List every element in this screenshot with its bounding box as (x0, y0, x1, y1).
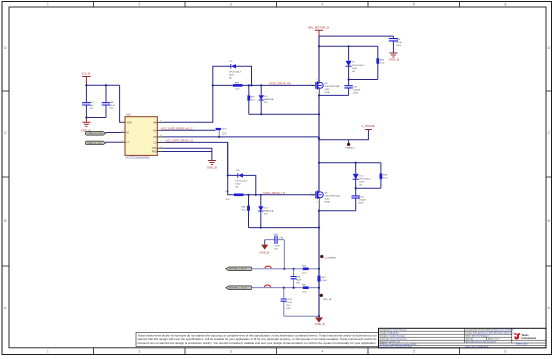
ground GND_B left (81, 118, 91, 133)
svg-text:DNI: DNI (279, 238, 283, 240)
node junction at ground (85, 116, 87, 118)
svg-text:R62: R62 (251, 96, 256, 98)
svg-text:C98: C98 (109, 102, 114, 104)
wire LO diode bypass box (228, 175, 256, 194)
diode D11 (353, 163, 372, 196)
svg-text:HI: HI (127, 131, 130, 134)
svg-text:5: 5 (413, 350, 415, 354)
svg-text:GND_B: GND_B (259, 251, 269, 255)
svg-text:1A: 1A (359, 183, 362, 186)
svg-text:SMAJ15A: SMAJ15A (264, 98, 274, 101)
svg-text:347A: 347A (324, 91, 330, 94)
svg-text:1000pF: 1000pF (358, 200, 366, 202)
svg-text:UCC27211AQDDARQ1: UCC27211AQDDARQ1 (126, 156, 151, 159)
wire cap bottoms (86, 117, 106, 119)
svg-text:Drawn By: Texas Instruments: Drawn By: Texas Instruments (380, 338, 407, 341)
wire C100 to Q9 source (319, 210, 356, 212)
node junction phase (318, 137, 320, 139)
svg-text:C103: C103 (286, 299, 292, 301)
svg-text:2: 2 (139, 350, 141, 354)
svg-text:3: 3 (316, 92, 317, 94)
svg-text:Sheet: 4 of 7: Sheet: 4 of 7 (488, 338, 501, 341)
svg-text:Sheet Title: Half Bridge U: Sheet Title: Half Bridge U (466, 335, 490, 338)
wire PWM_LO to U10 (106, 141, 121, 143)
svg-text:GND_B: GND_B (315, 322, 325, 326)
svg-text:Designer: Sandun Kuruppu: Designer: Sandun Kuruppu (380, 335, 406, 338)
diode D8 (235, 170, 248, 189)
wire R59 bottom to D11 (356, 187, 381, 189)
svg-text:100V: 100V (359, 181, 365, 183)
svg-text:Size: A4: Size: A4 (466, 338, 474, 341)
svg-text:C: C (548, 131, 551, 135)
svg-text:A: A (4, 306, 7, 310)
svg-text:1: 1 (47, 350, 49, 354)
svg-text:1A: 1A (229, 76, 232, 79)
svg-text:25V: 25V (109, 108, 113, 110)
svg-text:GATE_DRIVE_LO: GATE_DRIVE_LO (263, 191, 285, 195)
wire VDD to U10 (120, 85, 121, 122)
diode D9 (229, 61, 242, 80)
svg-text:GATE_DRIVE_HO: GATE_DRIVE_HO (269, 82, 291, 86)
svg-text:0.001: 0.001 (322, 280, 328, 282)
capacitor C100 (352, 196, 367, 211)
svg-text:10.0: 10.0 (225, 199, 230, 201)
svg-text:DNI: DNI (286, 308, 290, 310)
wire C103 to gnd rail (284, 315, 319, 317)
capacitor C98 (102, 85, 116, 117)
svg-text:R61: R61 (225, 191, 230, 193)
node junction shunt bottom (318, 287, 320, 289)
ground CHG_B triangle (259, 240, 269, 255)
svg-text:licensors do not warrant the d: licensors do not warrant the design is p… (138, 342, 377, 345)
svg-text:R69: R69 (302, 285, 307, 287)
resistor R68 (302, 266, 309, 275)
svg-text:R60: R60 (380, 59, 385, 61)
svg-text:HB: HB (153, 121, 157, 124)
wire HO net with label (161, 127, 215, 131)
transistor Q9 (310, 163, 340, 211)
node junction boot left (212, 84, 214, 86)
svg-text:10.0: 10.0 (380, 62, 385, 64)
svg-text:D: D (548, 46, 551, 50)
capacitor C38 (344, 86, 361, 96)
svg-text:3: 3 (230, 2, 232, 6)
svg-text:SMAJ15A: SMAJ15A (264, 209, 274, 212)
svg-text:15V: 15V (264, 102, 268, 104)
svg-text:R67: R67 (322, 277, 327, 279)
svg-text:I2C: I2C (222, 131, 228, 135)
svg-text:VDD: VDD (127, 121, 132, 124)
svg-text:4: 4 (322, 2, 324, 6)
svg-text:0.1uF: 0.1uF (274, 246, 280, 248)
svg-text:1A: 1A (352, 70, 355, 73)
node junction C101 tap (283, 268, 285, 270)
svg-text:D8: D8 (237, 170, 241, 172)
node junction R65 top (247, 194, 249, 196)
node junction D12 bottom (260, 227, 262, 229)
svg-text:0.1uF: 0.1uF (109, 105, 115, 107)
svg-text:PWM_1H_3V3: PWM_1H_3V3 (88, 133, 103, 135)
wire rail Q9 source down (318, 211, 320, 269)
node junction shunt top (318, 268, 320, 270)
svg-text:C38: C38 (353, 87, 358, 89)
wire VSS PAD to ground (163, 148, 212, 160)
capacitor C103 (281, 299, 293, 316)
svg-text:1A: 1A (235, 186, 238, 189)
wire sense P to rail (309, 268, 319, 270)
wire HS to phase rail (163, 136, 319, 138)
svg-text:100V: 100V (229, 74, 235, 76)
svg-text:6: 6 (505, 350, 507, 354)
resistor R61 (225, 191, 243, 201)
svg-text:DFLS1100-7: DFLS1100-7 (352, 65, 365, 67)
node junction boot top (318, 45, 320, 47)
node junction D9 box right (250, 84, 252, 86)
svg-text:GND_B: GND_B (207, 165, 217, 169)
wire gate clamp bottom (249, 113, 319, 115)
svg-text:D9: D9 (230, 61, 234, 63)
svg-text:3: 3 (230, 350, 232, 354)
svg-text:C97: C97 (90, 102, 95, 104)
svg-text:347A: 347A (324, 200, 330, 203)
node junction D12 top (260, 194, 262, 196)
node junction rail low clamp (318, 227, 320, 229)
TI logo (514, 333, 536, 345)
wire sense P (252, 268, 303, 270)
svg-text:C100: C100 (358, 197, 364, 199)
svg-text:5: 5 (413, 2, 415, 6)
diode D12 zener (258, 195, 274, 228)
svg-text:100V: 100V (358, 203, 364, 205)
wire sense N to rail (309, 287, 319, 289)
port MOTOR_1_CS_P arrow (226, 267, 252, 271)
svg-text:PWM_1L_3V3: PWM_1L_3V3 (88, 143, 103, 145)
svg-text:DFLS1100-7: DFLS1100-7 (235, 181, 248, 183)
svg-text:4: 4 (316, 78, 317, 80)
svg-text:Engineer: SK Rev: E1: Engineer: SK Rev: E1 (380, 341, 401, 344)
svg-text:100V: 100V (353, 93, 359, 95)
node junction rail clamp (318, 113, 320, 115)
svg-text:D: D (4, 46, 7, 50)
svg-text:I_CURRENT: I_CURRENT (323, 258, 337, 260)
svg-text:D11: D11 (359, 175, 364, 177)
svg-text:1000pF: 1000pF (353, 90, 361, 92)
svg-text:R64 0: R64 0 (221, 129, 227, 131)
diode D7 (346, 46, 365, 85)
svg-text:10.0: 10.0 (383, 178, 388, 180)
power flag 48V_MOTOR_B (308, 26, 329, 36)
svg-text:B: B (4, 219, 6, 223)
svg-text:www.ti.com: www.ti.com (516, 343, 528, 346)
capacitor C97 (82, 85, 94, 117)
svg-text:2: 2 (139, 2, 141, 6)
svg-text:R68: R68 (302, 266, 307, 268)
wire boot top run (319, 45, 378, 47)
wire HB pin to boot node (163, 85, 213, 122)
svg-text:Q8: Q8 (324, 83, 328, 85)
wire rail source down (318, 95, 320, 162)
node junction D10 top (260, 84, 262, 86)
ground GND_B under U10 (207, 161, 217, 170)
wire PWM_HI to U10 (106, 132, 121, 134)
svg-text:R59: R59 (383, 175, 388, 177)
svg-text:Sheet 4 of 7 TIDA-00281: Sheet 4 of 7 TIDA-00281 (466, 346, 490, 349)
wire VDD top rail (86, 84, 119, 86)
transistor Q8 (310, 78, 340, 95)
capacitor C99 (291, 269, 302, 288)
resistor R69 (302, 285, 309, 294)
node junction gnd rail (318, 315, 320, 317)
svg-text:10.0: 10.0 (302, 272, 307, 274)
node junction source Q8 (318, 94, 320, 96)
port PWM_HI input arrow (86, 132, 106, 136)
op-amp U10 gate driver (121, 113, 163, 160)
wire low clamp bottom (249, 227, 320, 229)
wire LO gate run (228, 142, 234, 194)
svg-text:Project Title: Automotive 1kW: Project Title: Automotive 1kW 48V BLDC M… (466, 332, 516, 335)
svg-text:Texas Instruments and/or its l: Texas Instruments and/or its licensors d… (138, 334, 377, 337)
svg-text:MOTOR_1_CS_P: MOTOR_1_CS_P (229, 269, 247, 271)
svg-text:100V: 100V (324, 89, 330, 91)
node junction HS wire (218, 136, 220, 138)
wire HO diode bypass box (213, 66, 252, 85)
svg-text:4: 4 (316, 188, 317, 190)
svg-text:10.0: 10.0 (235, 89, 240, 91)
resistor R58 (233, 83, 243, 91)
svg-text:100V: 100V (352, 68, 358, 70)
svg-text:DFLS1100-7: DFLS1100-7 (359, 178, 372, 180)
svg-text:Instruments: Instruments (521, 336, 536, 340)
wire phase to C_PHASE flag (319, 130, 368, 140)
svg-text:DFLS1100-7: DFLS1100-7 (229, 71, 242, 73)
node junction source Q9 (318, 210, 320, 212)
ground GND_B bottom triangle (315, 317, 325, 326)
svg-text:CSD19531Q5A: CSD19531Q5A (324, 85, 340, 88)
capacitor C96 (389, 36, 403, 52)
svg-text:48V_MOTOR_B: 48V_MOTOR_B (308, 26, 329, 30)
svg-text:Design: TIDA-00281: Design: TIDA-00281 (380, 332, 400, 335)
svg-text:12V_B: 12V_B (82, 72, 91, 76)
title block (379, 328, 547, 348)
node junction LO box left (227, 174, 229, 176)
port PWM_LO input arrow (86, 141, 106, 145)
node junction at C97 top (85, 84, 87, 86)
disclaimer box (136, 333, 379, 347)
node junction D11 top (355, 162, 357, 164)
testpoint GND_RF (320, 294, 333, 301)
svg-text:CSD19531Q5A: CSD19531Q5A (324, 194, 340, 197)
svg-text:D12: D12 (264, 207, 269, 209)
resistor R62 (247, 85, 255, 114)
wire C38 to source (319, 94, 349, 96)
node junction R62 top (248, 84, 250, 86)
svg-text:R65: R65 (241, 207, 246, 209)
port MOTOR_1_CS_N arrow (226, 286, 252, 290)
svg-text:HO: HO (153, 129, 157, 132)
node junction low boot (318, 162, 320, 164)
svg-text:Assembly Variant: [No Variatio: Assembly Variant: [No Variations] (466, 341, 497, 344)
svg-text:C99: C99 (296, 276, 301, 278)
svg-text:Copyright: Texas Instruments 2: Copyright: Texas Instruments 2015 (380, 346, 413, 349)
svg-text:Designed for: Public Release: Designed for: Public Release (380, 329, 408, 332)
wire HO gate run (213, 84, 233, 86)
wire low boot top run (319, 162, 381, 164)
wire LO net with label (163, 139, 228, 176)
wire R60 bottom to D7 (349, 79, 378, 81)
resistor R59 (380, 163, 389, 189)
svg-text:100V: 100V (396, 45, 402, 47)
svg-text:C: C (4, 131, 7, 135)
svg-text:10.0: 10.0 (241, 210, 246, 212)
net tie NT2 (264, 285, 270, 287)
svg-text:100V: 100V (324, 198, 330, 200)
svg-text:1uF: 1uF (90, 105, 94, 107)
svg-text:1: 1 (47, 2, 49, 6)
svg-text:D10: D10 (264, 96, 269, 98)
node junction D10 bottom (260, 113, 262, 115)
svg-text:LO: LO (153, 141, 156, 144)
testpoint I_CURRENT (320, 255, 337, 260)
svg-text:HS: HS (153, 136, 157, 139)
svg-text:0.1uF: 0.1uF (286, 302, 292, 304)
svg-text:warrant that this design will: warrant that this design will meet the s… (138, 338, 378, 341)
resistor R65 (241, 195, 250, 228)
diode D10 zener (259, 85, 274, 114)
capacitor C101 (265, 234, 285, 251)
wire gate to Q8 (243, 84, 315, 86)
svg-text:6: 6 (505, 2, 507, 6)
node junction D8 box right (255, 194, 257, 196)
svg-text:Q9: Q9 (324, 192, 328, 194)
svg-text:C96: C96 (396, 39, 401, 41)
node junction C99 bottom (293, 287, 295, 289)
svg-text:D7: D7 (352, 62, 356, 64)
wire rail 48V down (318, 36, 320, 81)
resistor R67 shunt (318, 269, 328, 288)
svg-text:25V: 25V (274, 249, 278, 251)
node junction C100 top (355, 187, 357, 189)
svg-text:Designed by: Product Release: Designed by: Product Release Mod. Date: … (466, 329, 515, 332)
ground GND_B top right (389, 53, 399, 62)
svg-text:10.0: 10.0 (251, 99, 256, 101)
svg-text:100V: 100V (235, 184, 241, 186)
svg-text:U10: U10 (126, 113, 131, 117)
wire rail shunt to ground (318, 288, 320, 318)
svg-text:LI: LI (127, 141, 129, 144)
svg-text:C_PHASE: C_PHASE (361, 124, 375, 128)
node junction C38 top (348, 78, 350, 80)
node junction at C98 top (105, 84, 107, 86)
svg-text:15V: 15V (264, 213, 268, 215)
testpoint PHASE_T (346, 140, 357, 150)
svg-text:A: A (548, 306, 551, 310)
svg-text:GND_RF: GND_RF (323, 299, 333, 301)
power flag C_PHASE (361, 124, 375, 130)
node junction C99 top (293, 268, 295, 270)
svg-text:25V: 25V (90, 108, 94, 110)
wire C101 to sense P (283, 240, 285, 269)
node junction C103 tap (283, 287, 285, 289)
resistor R60 (376, 46, 385, 79)
svg-text:C101: C101 (273, 234, 279, 236)
node junction D7 top (348, 45, 350, 47)
svg-text:4: 4 (322, 350, 324, 354)
svg-text:50V: 50V (296, 282, 300, 284)
wire C103 branch (283, 288, 285, 299)
svg-text:MOTOR_1_CS_N: MOTOR_1_CS_N (229, 288, 247, 290)
svg-text:PAD: PAD (152, 151, 157, 154)
wire gate to Q9 (244, 194, 315, 196)
svg-text:B: B (548, 219, 550, 223)
power flag 12V_B (82, 72, 91, 86)
svg-text:PHASE_T: PHASE_T (346, 147, 357, 150)
svg-text:GND_B: GND_B (389, 58, 399, 62)
svg-text:10.0: 10.0 (302, 291, 307, 293)
resistor R64 (216, 128, 228, 137)
svg-text:25V: 25V (286, 305, 290, 307)
svg-text:3: 3 (316, 202, 317, 204)
net tie NT1 (265, 266, 271, 268)
wire sense N (252, 287, 303, 289)
wire 48V top (319, 35, 393, 37)
svg-text:0.1uF: 0.1uF (396, 42, 402, 44)
svg-text:56pF: 56pF (296, 279, 302, 281)
